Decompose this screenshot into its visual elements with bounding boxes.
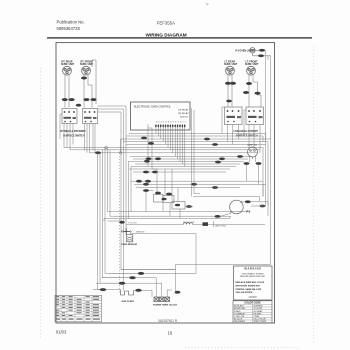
wire gB4 bbox=[120, 139, 122, 153]
warning box frame bbox=[234, 266, 273, 300]
coil symbol L2 bbox=[184, 223, 193, 225]
EOC terminal strip pins bbox=[156, 124, 185, 128]
bus oval label 6c bbox=[152, 171, 158, 174]
lower bus oval c bbox=[143, 183, 149, 186]
wire gB6 bbox=[129, 162, 132, 219]
motor oval right bbox=[260, 205, 266, 208]
latch blob component bbox=[203, 222, 209, 226]
wire drops from right surface units bbox=[228, 75, 261, 107]
bus oval label 2 bbox=[148, 142, 154, 145]
legend table columns bbox=[61, 295, 92, 322]
bus oval label 9 bbox=[215, 161, 221, 164]
wire label oval BLK bbox=[62, 98, 68, 101]
main diagram border bbox=[56, 43, 275, 323]
dashed ground wire bbox=[119, 156, 121, 293]
wire latch row bbox=[108, 217, 266, 227]
wire rbus3 bbox=[267, 56, 269, 216]
bottom oval 6 bbox=[175, 291, 181, 294]
wire label oval RED4 bbox=[255, 92, 261, 95]
relay K2 bbox=[154, 195, 164, 203]
oven light wiring bbox=[253, 50, 271, 56]
scan artifact dotted row bottom bbox=[185, 347, 300, 349]
bus oval label 4 bbox=[146, 157, 152, 160]
bottom oval 2 bbox=[129, 276, 135, 279]
relay oval 5 bbox=[186, 205, 192, 208]
EOC pin dots bbox=[155, 125, 185, 127]
wire rbus5 bbox=[176, 264, 271, 293]
wire bus7 bbox=[70, 124, 260, 150]
wire bus11 bbox=[129, 164, 240, 172]
relay oval 1 bbox=[155, 192, 161, 195]
bottom oval 4 bbox=[100, 288, 106, 291]
wire bus9 bbox=[85, 124, 96, 153]
EOC pin number row bbox=[156, 121, 186, 123]
wire label oval RED bbox=[69, 98, 75, 101]
wire bus8 bbox=[90, 124, 257, 153]
lower bus oval a bbox=[136, 180, 142, 183]
EOC box U1 bbox=[131, 102, 191, 130]
wire gA4 bbox=[105, 148, 138, 274]
bottom oval 1 bbox=[138, 272, 144, 275]
wire gB3 bbox=[98, 112, 176, 270]
surface unit label right-rear bbox=[224, 61, 238, 67]
wire bus10 bbox=[128, 157, 252, 162]
scan artifact dotted column left margin bbox=[40, 68, 42, 340]
relay K3 bbox=[163, 196, 174, 203]
bottom wires bbox=[93, 270, 196, 297]
surface unit P4 (left pair, right) bbox=[82, 66, 91, 75]
wire bus1 bbox=[129, 128, 266, 140]
lamp drop wires bbox=[247, 159, 259, 185]
relay oval 4 bbox=[175, 204, 180, 207]
lower bus oval e bbox=[191, 183, 197, 186]
wire label oval between switches bbox=[76, 104, 82, 107]
relay oval 2 bbox=[166, 193, 172, 196]
caption under right switches bbox=[234, 130, 259, 137]
surface unit P3 (left pair, left) bbox=[63, 66, 72, 75]
title underline bar bbox=[47, 37, 312, 38]
bus oval label 1 bbox=[95, 151, 101, 154]
infinite switch S3 (right) bbox=[225, 107, 243, 125]
color table rows text bbox=[234, 305, 267, 324]
bottom oval 3 bbox=[119, 282, 125, 285]
wire label oval RED3 bbox=[230, 82, 236, 85]
wire gA1 bbox=[98, 153, 104, 290]
wire bus5 bbox=[126, 144, 266, 146]
scan artifact speck top center bbox=[206, 4, 209, 5]
wire label oval BLK4 bbox=[246, 82, 252, 85]
lower bus wire 12 bbox=[131, 181, 266, 187]
wire rbus1 bbox=[262, 148, 264, 197]
right switch drop wires bbox=[222, 107, 260, 153]
bus oval label 5 bbox=[155, 157, 161, 160]
relay K4 bbox=[172, 202, 185, 210]
latch row oval2 bbox=[119, 221, 125, 224]
wire gA6 bbox=[110, 150, 231, 216]
wire rbus2 bbox=[265, 50, 267, 206]
wire label oval light2 bbox=[258, 54, 264, 57]
wire from EOC to y196 bbox=[192, 108, 201, 197]
relay oval 3 bbox=[161, 198, 166, 201]
lamp oval label 1 bbox=[244, 162, 250, 165]
junction node B bbox=[119, 152, 122, 155]
infinite switch S2 (left) bbox=[83, 109, 98, 124]
legend table frame bbox=[55, 295, 102, 322]
wire bus2 bbox=[126, 128, 263, 142]
color table grid bbox=[233, 304, 272, 322]
caption under left switches bbox=[61, 130, 87, 137]
surface unit label right-front bbox=[245, 61, 259, 67]
wire gA5 bbox=[108, 148, 251, 212]
bus oval label 10 bbox=[204, 138, 210, 141]
motor M1 bbox=[230, 200, 244, 214]
relay cluster oval left bbox=[143, 189, 149, 192]
bus oval label 3 bbox=[141, 137, 147, 140]
lower bus oval d bbox=[212, 186, 218, 189]
warning subtitle lines bbox=[240, 273, 266, 278]
wire rbus4 bbox=[270, 56, 272, 264]
wire label oval BLK2 bbox=[81, 77, 87, 80]
junction node A bbox=[105, 146, 108, 149]
sensor wires bbox=[126, 227, 196, 274]
bus wires horizontal bbox=[64, 124, 271, 173]
wire label oval RED2 bbox=[84, 98, 90, 101]
right bus verticals bbox=[176, 50, 271, 293]
wire bus3 bbox=[121, 138, 271, 140]
infinite switch S1 (left) bbox=[62, 109, 77, 124]
wire label oval BLK3 bbox=[225, 82, 231, 85]
plug cross J1 bbox=[121, 229, 131, 235]
oven light L1 bbox=[250, 48, 255, 53]
wire label oval Y bbox=[91, 98, 97, 101]
EOC right pin labels bbox=[178, 109, 189, 119]
infinite switch S4 (right) bbox=[246, 107, 264, 125]
bus oval label 7 bbox=[219, 157, 225, 160]
publication number text bbox=[57, 20, 85, 32]
legend table text marks bbox=[56, 296, 100, 320]
surface unit P1 (right pair, left) bbox=[226, 66, 235, 75]
bus oval label 6b bbox=[143, 171, 149, 174]
fuse link symbol (square wave) bbox=[121, 290, 134, 295]
relay cluster wires bbox=[157, 169, 178, 202]
warning body lines bbox=[235, 281, 264, 294]
sensor resistor RTD1 (hatched) bbox=[127, 235, 133, 242]
wire gA3 bbox=[103, 150, 130, 278]
wire gB2 bbox=[98, 109, 124, 153]
bus oval label 6 bbox=[144, 160, 150, 163]
surface unit label left-front bbox=[80, 61, 94, 67]
wire drops from left surface units bbox=[65, 60, 96, 108]
relay cluster link wires bbox=[104, 191, 230, 222]
legend table rows bbox=[55, 298, 102, 317]
bus oval label 11 bbox=[212, 143, 218, 146]
wire label oval right sw top bbox=[226, 100, 232, 103]
color table frame bbox=[233, 301, 272, 323]
scan artifact dotted column right margin bbox=[313, 46, 315, 345]
left vertical bundle group A bbox=[98, 148, 251, 290]
left vertical bundle group B bbox=[98, 106, 176, 291]
wire bus4 bbox=[123, 141, 268, 143]
bottom oval 5 bbox=[135, 289, 141, 292]
lower bus oval b bbox=[145, 180, 151, 183]
wire gB5 bbox=[123, 153, 125, 291]
left switch extra drop wires bbox=[60, 114, 93, 153]
wire bus6 bbox=[64, 124, 263, 148]
surface unit P2 (right pair, right) bbox=[247, 66, 256, 75]
surface unit label left-rear bbox=[61, 61, 75, 67]
wire label oval light1 bbox=[259, 49, 265, 52]
wire gB1 bbox=[98, 106, 127, 231]
wire gA2 bbox=[100, 153, 118, 283]
lamp receptacle K1 bbox=[248, 147, 258, 159]
lamp oval label 2 bbox=[256, 162, 262, 165]
latch row oval bbox=[215, 215, 221, 218]
EOC pin drop wires bbox=[148, 124, 185, 169]
motor wires bbox=[193, 197, 268, 217]
motor oval top bbox=[245, 200, 251, 203]
terminal block TB1 bbox=[154, 297, 170, 302]
bus oval label 8 bbox=[237, 155, 243, 158]
